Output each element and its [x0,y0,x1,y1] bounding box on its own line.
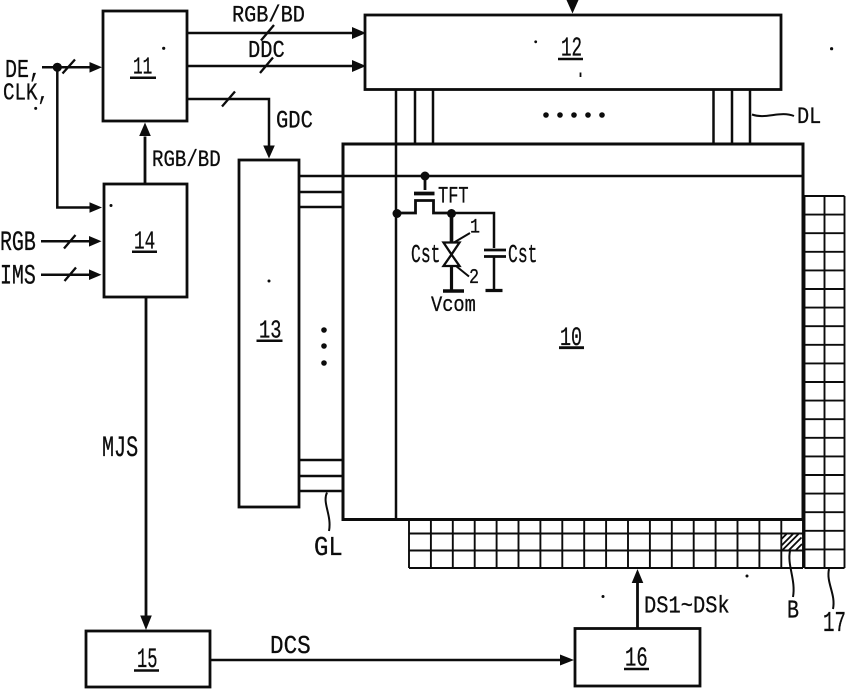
transistor TFT channel [397,201,452,214]
svg-text:17: 17 [823,609,846,641]
gate line GL6 [299,490,343,493]
label 10 [560,323,582,353]
ellipsis dots between gate lines [321,327,327,366]
pin label 2 [469,266,479,290]
liquid crystal element (bowtie) upper triangle [444,243,460,255]
pin label 1 [470,216,480,239]
wire IMS into U14 [41,273,89,276]
transistor TFT gate wire [424,176,427,190]
label RGB [0,228,36,259]
svg-text:B: B [787,596,799,625]
wire DCS from U15 to U16 [210,659,560,662]
svg-text:MJS: MJS [102,431,138,465]
leader squiggle for GL [326,493,330,532]
capacitor Cst wire bottom [493,258,496,291]
noise speck 8 [746,575,749,578]
leader for pin 2 [456,266,469,277]
svg-text:TFT: TFT [438,184,469,210]
svg-text:CLK,: CLK, [3,80,49,108]
block U15 [86,631,210,687]
noise speck 4 [34,107,37,110]
liquid crystal element (bowtie) lower triangle [444,255,460,267]
leader for B [789,551,793,597]
noise speck 6 [110,204,113,207]
bus slash on DE/CLK [63,60,76,74]
data line DL5 [731,91,734,145]
label Cst right [508,240,537,270]
underline of 15 [134,669,159,672]
label DCS [270,633,311,662]
svg-text:2: 2 [469,266,479,290]
svg-text:DCS: DCS [270,633,311,662]
label IMS [0,262,36,293]
leader for 17 [828,569,833,609]
wire RGB into U14 [41,240,89,243]
data line DL3 [432,91,435,145]
label DDC [248,37,285,65]
label 17 [823,609,846,641]
gate line GL5 [299,475,343,478]
junction node on DE/CLK [53,63,62,72]
liquid crystal cell wire top [450,213,454,243]
label 16 [625,643,648,673]
transistor TFT gate bar [414,192,435,196]
svg-text:Cst: Cst [411,240,440,270]
node: TFT source on data line [393,209,402,218]
data line DL6 [749,91,752,145]
label 13 [259,316,281,346]
node: gate line junction [421,172,430,181]
node: TFT drain [447,209,456,218]
liquid crystal wire bottom [450,266,453,291]
underline of 10 [559,346,584,349]
svg-text:DS1~DSk: DS1~DSk [644,592,730,620]
svg-text:1: 1 [470,216,480,239]
label 11 [133,55,152,82]
bus slash on IMS [65,268,77,282]
gate line GL4 [299,459,343,462]
svg-text:RGB/BD: RGB/BD [152,148,221,174]
svg-text:Cst: Cst [508,240,537,270]
label CLK, [3,80,49,108]
svg-text:RGB/BD: RGB/BD [232,2,305,29]
bus slash on GDC [222,92,235,107]
gate line GL3 [299,206,343,209]
underline of 12 [558,58,583,61]
data line DL2 [414,90,417,144]
wire DS1~DSk from U16 to panel [636,583,639,629]
noise speck 3 [580,73,582,78]
wire GDC from U11 to U13 [187,99,269,146]
label RGB/BD [232,2,305,29]
underline of 14 [132,251,157,254]
bus slash on RGB/BD [261,25,274,41]
block U14 [104,184,187,297]
noise speck 2 [534,40,537,43]
hatched pad cell B [782,534,803,550]
data line DL4 [712,90,715,144]
underline of 13 [257,340,283,343]
label 14 [134,226,155,256]
noise speck 7 [268,280,271,283]
bottom pad grid [409,520,803,568]
leader for pin 1 [454,233,470,243]
label TFT [438,184,469,210]
label DS1~DSk [644,592,730,620]
label Cst left [411,240,440,270]
wire MJS from U14 to U15 [145,297,148,616]
block U16 [575,629,700,687]
label GDC [276,107,313,135]
wire DE/CLK down to U14 [57,67,90,207]
label DL [797,104,821,131]
label RGB/BD vertical [152,148,221,174]
svg-text:GL: GL [314,533,343,564]
Vcom terminal bar [443,289,464,293]
block U12 (data driver) [365,15,781,90]
underline of 16 [624,668,649,671]
svg-text:GDC: GDC [276,107,313,135]
noise speck 5 [830,47,833,50]
block U13 (gate driver) [239,160,299,507]
gate line GL2 [299,191,343,194]
ellipsis dots between data lines [543,112,605,118]
right pad grid 17 [805,196,845,568]
label B [787,596,799,625]
label DE, [5,56,41,85]
label 12 [561,33,582,64]
leader squiggle for DL [752,114,794,116]
label 15 [137,644,158,675]
gate line GL1 from U13 across panel [299,175,802,178]
block U11 (timing controller) [103,11,187,121]
capacitor Cst top plate [484,249,506,252]
underline of 11 [130,77,156,80]
noise speck 9 [602,595,605,598]
data line DL1 from U12 through panel [395,91,398,520]
capacitor Cst terminal bar [486,289,503,292]
wire DE/CLK to U11 [42,66,90,69]
svg-text:DL: DL [797,104,821,131]
block U10 (LCD panel) [343,144,803,520]
bus slash on DDC [260,58,273,74]
svg-text:DDC: DDC [248,37,285,65]
capacitor Cst bottom plate [484,255,506,258]
bus slash on RGB [64,235,76,249]
capacitor Cst wire top [452,213,495,248]
svg-text:IMS: IMS [0,262,36,293]
svg-text:Vcom: Vcom [431,294,476,319]
svg-text:RGB: RGB [0,228,36,259]
wire DDC from U11 to U12 [187,65,353,68]
arrow into U12 top [567,0,579,14]
wire RGB/BD from U14 to U11 [144,137,147,185]
noise speck 1 [162,47,165,50]
wire RGB/BD from U11 to U12 [187,32,353,35]
label GL [314,533,343,564]
label Vcom [431,294,476,319]
label MJS [102,431,138,465]
